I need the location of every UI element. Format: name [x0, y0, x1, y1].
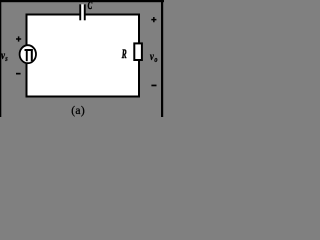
svg-text:(a): (a): [71, 105, 85, 117]
wire right: [138, 16, 140, 98]
capacitor C: [79, 4, 85, 20]
pulse waveform symbol: [25, 49, 33, 61]
wire left lower: [26, 62, 28, 96]
wire bottom: [26, 96, 141, 98]
source polarity minus: [16, 73, 21, 75]
wire top-right segment: [85, 14, 141, 16]
label vs: [1, 50, 8, 63]
svg-text:R: R: [121, 48, 127, 62]
label vo: [150, 51, 158, 64]
gray background: [0, 0, 164, 117]
output polarity plus: [151, 17, 156, 22]
resistor R: [134, 43, 142, 60]
voltage source vs: [20, 45, 36, 63]
circuit interior white area: [27, 15, 140, 97]
svg-text:o: o: [154, 55, 157, 64]
output polarity minus: [151, 85, 156, 87]
svg-text:s: s: [4, 54, 7, 63]
wire top-left segment: [26, 14, 81, 46]
svg-text:C: C: [88, 1, 93, 13]
svg-text:v: v: [150, 51, 154, 63]
source polarity plus: [16, 36, 21, 41]
